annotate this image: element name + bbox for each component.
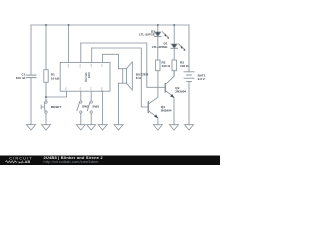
svg-text:SW1: SW1 [82,105,89,109]
svg-text:DIS: DIS [89,64,91,68]
svg-text:2N3904: 2N3904 [175,89,186,93]
svg-text:RST: RST [66,64,68,69]
svg-text:GND: GND [100,87,102,92]
svg-text:OUT: OUT [78,64,80,69]
svg-text:LTL-307GE: LTL-307GE [139,33,155,37]
svg-text:RESET: RESET [51,105,61,109]
svg-text:TR: TR [64,87,66,90]
svg-text:http://circuitlab.com/cmn5dem: http://circuitlab.com/cmn5dem [44,160,99,164]
svg-text:10 kΩ: 10 kΩ [51,76,60,80]
svg-text:SW2: SW2 [92,105,99,109]
svg-text:8 Ω: 8 Ω [136,76,142,80]
svg-text:100 Ω: 100 Ω [180,64,189,68]
svg-text:LTL-307EE: LTL-307EE [152,45,168,49]
svg-text:555 (5V): 555 (5V) [84,73,87,83]
svg-text:LAB: LAB [22,160,30,164]
svg-text:100 Ω: 100 Ω [162,64,171,68]
svg-text:CV: CV [89,87,91,91]
svg-text:TH: TH [78,87,80,90]
svg-text:9.3 V: 9.3 V [198,77,206,81]
svg-text:100 nF: 100 nF [16,76,26,80]
svg-text:DIP8: DIP8 [87,73,90,79]
svg-text:2N3904: 2N3904 [161,108,172,112]
svg-text:2U4B8 | Blinker and Sirene 2: 2U4B8 | Blinker and Sirene 2 [44,155,104,160]
